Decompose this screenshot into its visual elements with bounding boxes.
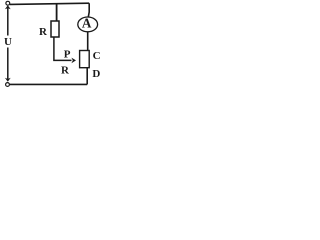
svg-text:D: D <box>92 68 100 80</box>
voltage arrow U (lower shaft) <box>7 48 9 80</box>
svg-text:R: R <box>61 64 70 76</box>
svg-text:A: A <box>82 16 92 31</box>
wire (below resistor, down then right) <box>54 37 72 60</box>
wire (bottom horizontal) <box>10 83 88 85</box>
wire (ammeter to rheostat top) <box>87 32 89 51</box>
svg-text:P: P <box>64 49 71 61</box>
rheostat R (box, terminals C/D) <box>80 51 90 68</box>
ammeter U1 <box>78 17 98 32</box>
voltage arrow U (up arrowhead) <box>5 5 11 9</box>
svg-text:R: R <box>39 26 48 38</box>
wire (middle branch top) <box>56 4 58 21</box>
voltage arrow U (upper shaft) <box>7 8 9 36</box>
wire (top horizontal) <box>10 3 90 4</box>
terminal (bottom-left) <box>6 83 10 87</box>
wiper arrowhead P <box>71 58 76 64</box>
svg-text:C: C <box>93 50 101 62</box>
voltage arrow U (down arrowhead) <box>5 78 11 82</box>
resistor R (box) <box>51 21 59 37</box>
wire (top-right vertical to ammeter) <box>87 3 90 17</box>
svg-text:U: U <box>4 36 12 48</box>
wire (rheostat bottom to bottom wire) <box>86 68 88 85</box>
terminal (top-left) <box>6 1 10 5</box>
